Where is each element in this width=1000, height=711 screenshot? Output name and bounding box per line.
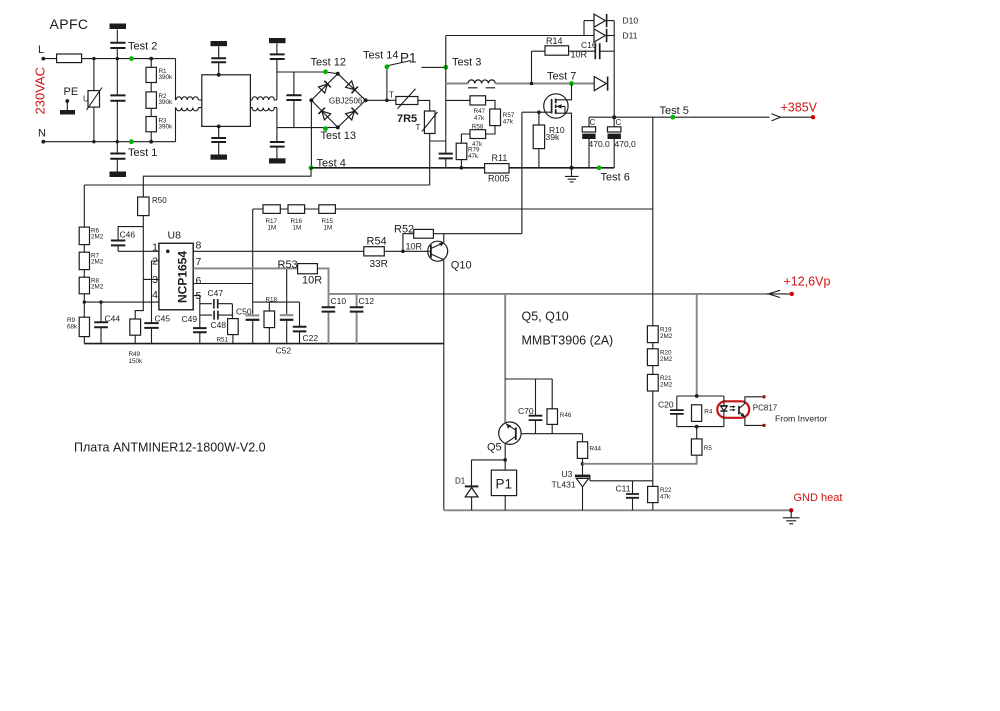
shunt regulator U3 TL431	[581, 462, 585, 466]
svg-text:Test 1: Test 1	[128, 147, 157, 159]
svg-text:N: N	[38, 128, 46, 140]
svg-text:T: T	[389, 91, 394, 100]
resistor R17	[263, 205, 280, 214]
svg-text:Test 2: Test 2	[128, 41, 157, 53]
resistor R10	[537, 110, 541, 114]
svg-text:C47: C47	[208, 288, 224, 298]
resistor R8	[83, 270, 85, 278]
svg-text:1M: 1M	[293, 225, 302, 232]
Y-cap right top	[276, 43, 278, 72]
node Test3 vertical	[445, 36, 447, 168]
resistor R58	[470, 130, 486, 139]
chassis ground bar	[269, 158, 286, 163]
svg-text:4: 4	[152, 289, 158, 301]
wire	[486, 126, 495, 134]
svg-text:R5: R5	[704, 445, 713, 452]
bridge negative riser	[310, 100, 312, 168]
svg-text:2M2: 2M2	[660, 356, 673, 363]
wire	[418, 100, 430, 111]
capacitor C 470.0	[588, 117, 590, 168]
capacitor C49	[193, 296, 200, 344]
wire Test4 to R50	[143, 168, 311, 197]
shunt resistor R11 R005	[485, 164, 509, 173]
resistor R44	[582, 434, 584, 464]
wire pin7 Vcc	[193, 268, 328, 293]
C20/R4 box wires	[677, 396, 724, 427]
svg-text:T: T	[416, 123, 421, 132]
svg-text:230VAC: 230VAC	[33, 67, 48, 114]
resistor R52	[403, 234, 414, 252]
X-cap C2	[293, 72, 295, 128]
svg-text:Test 13: Test 13	[321, 130, 356, 142]
svg-text:R18: R18	[266, 296, 278, 303]
wire AC sense	[84, 184, 429, 186]
svg-text:R4: R4	[704, 408, 713, 415]
test point Test 12	[323, 69, 328, 74]
earth ground	[565, 168, 579, 182]
capacitor C11	[632, 481, 634, 511]
svg-text:D1: D1	[455, 477, 466, 486]
svg-text:Test 3: Test 3	[452, 57, 481, 69]
resistor R19	[647, 326, 658, 343]
svg-text:TL431: TL431	[552, 480, 576, 490]
svg-text:R11: R11	[492, 153, 508, 163]
svg-text:C: C	[616, 118, 622, 127]
svg-text:390k: 390k	[159, 74, 174, 81]
test point Test 5	[670, 115, 675, 120]
svg-text:C46: C46	[120, 230, 136, 240]
Y-cap bottom left	[116, 142, 118, 172]
feedback node vertical	[252, 209, 254, 344]
resistor R7	[83, 245, 85, 253]
svg-text:Q5: Q5	[487, 442, 502, 454]
chassis ground bar	[211, 155, 228, 160]
wire	[198, 100, 201, 108]
svg-text:6: 6	[196, 275, 202, 287]
resistor R14	[532, 50, 596, 52]
svg-text:10R: 10R	[302, 274, 322, 286]
gate wire	[522, 112, 552, 234]
svg-text:C20: C20	[658, 399, 674, 409]
resistor R21	[647, 374, 658, 391]
chassis ground bar	[269, 38, 286, 43]
test point Test 3	[443, 65, 448, 70]
GND heat terminal	[789, 508, 793, 512]
capacitor C16	[595, 43, 599, 59]
svg-text:10R: 10R	[571, 50, 588, 60]
test point Test 4	[309, 165, 314, 170]
svg-text:R50: R50	[152, 196, 167, 205]
resistor R57	[490, 109, 501, 126]
wire top to bridge	[277, 72, 338, 74]
svg-text:U: U	[83, 95, 89, 104]
resistor R49	[130, 319, 141, 335]
svg-text:D11: D11	[623, 31, 638, 41]
MOSFET Q1	[556, 84, 572, 100]
svg-text:47k: 47k	[503, 118, 514, 125]
svg-text:U8: U8	[168, 230, 182, 242]
thermistor T2	[424, 111, 435, 134]
svg-text:2M2: 2M2	[91, 259, 104, 266]
ref wire	[590, 480, 653, 482]
thermistor 7R5	[396, 97, 418, 105]
wire R44 to R5	[583, 455, 697, 464]
capacitor C 470,0	[608, 127, 621, 132]
svg-text:C44: C44	[105, 314, 121, 324]
+385V divider riser	[652, 117, 654, 481]
test point Test 2	[129, 56, 134, 61]
svg-text:C45: C45	[155, 314, 171, 324]
svg-text:C70: C70	[518, 406, 534, 416]
resistor R51	[231, 304, 234, 344]
svg-text:1: 1	[152, 242, 158, 254]
X-cap C3	[439, 154, 453, 159]
capacitor C45	[152, 261, 159, 344]
svg-text:Test 12: Test 12	[311, 57, 346, 69]
bridge rectifier GBJ2506	[311, 74, 365, 128]
resistor R2	[146, 92, 156, 108]
choke L1 bottom winding	[176, 108, 198, 111]
svg-text:P1: P1	[400, 51, 417, 66]
svg-text:+385V: +385V	[781, 101, 818, 115]
svg-text:MMBT3906 (2A): MMBT3906 (2A)	[522, 334, 614, 348]
svg-text:8: 8	[196, 240, 202, 252]
wire bridge+ to thermistor	[366, 99, 396, 101]
junction snubber	[530, 82, 534, 86]
svg-text:39k: 39k	[546, 132, 560, 142]
test point Test 13	[323, 126, 328, 131]
capacitor C47	[200, 303, 233, 305]
test point Test 7	[569, 81, 574, 86]
wire L riser	[175, 59, 178, 100]
resistor R54	[364, 247, 385, 256]
svg-text:R49: R49	[129, 351, 141, 358]
svg-text:47k: 47k	[474, 115, 485, 122]
wire	[486, 100, 495, 109]
capacitor C52	[286, 268, 288, 343]
Y-cap box top	[218, 46, 220, 75]
resistor R20	[647, 349, 658, 366]
wire R52 to gate riser	[433, 233, 522, 235]
svg-text:PE: PE	[64, 86, 79, 98]
wire to R47	[446, 99, 470, 101]
Y-cap top left	[116, 30, 118, 59]
svg-text:+12,6Vp: +12,6Vp	[784, 275, 831, 289]
svg-text:C12: C12	[359, 296, 375, 306]
+385V wire	[589, 116, 813, 118]
wire riser bottom	[276, 108, 278, 128]
diode D11	[594, 29, 605, 42]
optocoupler PC817	[717, 401, 749, 418]
base wire Q5	[521, 433, 582, 435]
svg-text:PC817: PC817	[753, 404, 778, 413]
svg-text:390k: 390k	[159, 124, 174, 131]
Y-cap box bottom	[218, 126, 220, 154]
choke L2 bottom winding	[250, 108, 277, 111]
middle ground rail	[84, 343, 444, 345]
wire R50 to pin3	[135, 216, 159, 319]
wire riser top	[276, 72, 278, 100]
svg-text:R44: R44	[590, 445, 602, 452]
capacitor C48	[200, 314, 233, 316]
svg-text:C52: C52	[276, 346, 292, 356]
relay contact P1	[389, 61, 446, 68]
test point Test 1	[129, 139, 134, 144]
svg-text:R53: R53	[278, 259, 298, 271]
PE ground	[66, 101, 68, 110]
wire	[460, 160, 462, 168]
svg-text:47k: 47k	[660, 493, 671, 500]
emitter branch	[505, 378, 552, 380]
resistor R18	[268, 302, 270, 344]
PE terminal	[65, 99, 69, 103]
wire pin8 to Q10 base	[193, 250, 430, 252]
svg-text:R58: R58	[472, 124, 484, 131]
diode D1	[472, 460, 506, 510]
chassis ground bar	[110, 172, 127, 178]
svg-text:Test 6: Test 6	[601, 172, 630, 184]
svg-text:390k: 390k	[159, 99, 174, 106]
svg-text:C48: C48	[211, 320, 227, 330]
output bus	[613, 21, 615, 168]
svg-text:1M: 1M	[268, 225, 277, 232]
svg-text:2M2: 2M2	[91, 234, 104, 241]
svg-text:GND heat: GND heat	[794, 492, 843, 504]
svg-text:P1: P1	[496, 477, 513, 492]
svg-text:150k: 150k	[129, 358, 144, 365]
IC U8 NCP1654	[159, 243, 193, 309]
supply riser to C20	[696, 294, 698, 396]
svg-text:C49: C49	[182, 314, 198, 324]
svg-text:33R: 33R	[370, 259, 388, 270]
svg-text:R46: R46	[560, 412, 572, 419]
earth ground	[783, 510, 800, 524]
svg-text:Q10: Q10	[451, 260, 472, 272]
wire N	[43, 141, 175, 143]
wire L	[43, 58, 175, 60]
resistor R3	[146, 117, 156, 132]
wire N riser	[175, 108, 178, 142]
fuse F1	[57, 54, 82, 63]
capacitor C70	[535, 379, 537, 434]
svg-text:470,0: 470,0	[615, 139, 637, 149]
resistor R4	[692, 405, 702, 422]
svg-text:C10: C10	[331, 296, 347, 306]
svg-text:3: 3	[152, 274, 158, 286]
transistor Q10	[428, 241, 448, 261]
svg-text:Test 7: Test 7	[547, 71, 576, 83]
resistor R6	[79, 227, 89, 245]
svg-text:U3: U3	[562, 469, 573, 479]
svg-text:2M2: 2M2	[660, 333, 673, 340]
return rail	[311, 167, 614, 169]
capacitor C44	[99, 300, 102, 303]
chassis ground bar	[110, 24, 127, 30]
X-cap C1	[116, 59, 118, 142]
test point Test 14	[386, 67, 388, 101]
resistor R1	[149, 57, 153, 61]
relay coil P1	[491, 470, 516, 496]
wire pin4	[84, 294, 159, 317]
svg-text:R54: R54	[367, 235, 387, 247]
svg-text:APFC: APFC	[50, 16, 89, 32]
choke L2 top winding	[250, 97, 277, 100]
capacitor C10	[328, 294, 330, 344]
svg-text:Test 14: Test 14	[363, 50, 398, 62]
boost inductor L3	[468, 80, 495, 84]
test point Test 6	[597, 165, 602, 170]
wire D10/D11 anodes	[446, 21, 594, 36]
wire bottom to bridge	[277, 126, 338, 128]
svg-text:47k: 47k	[468, 153, 479, 160]
svg-text:2M2: 2M2	[660, 382, 673, 389]
svg-text:C22: C22	[303, 333, 319, 343]
Y-cap right bottom	[276, 128, 278, 159]
wire pin6	[193, 283, 253, 285]
svg-text:R14: R14	[546, 36, 563, 46]
svg-text:1M: 1M	[324, 225, 333, 232]
svg-text:R52: R52	[394, 224, 414, 236]
diode D10	[594, 14, 605, 27]
svg-text:2M2: 2M2	[91, 284, 104, 291]
svg-text:C11: C11	[616, 483, 631, 493]
svg-text:Test 5: Test 5	[660, 105, 689, 117]
resistor R47	[470, 96, 486, 105]
bottom ground rail	[444, 509, 791, 511]
capacitor C12	[356, 294, 358, 344]
svg-text:R51: R51	[217, 337, 229, 344]
divider wire R17 chain	[253, 208, 653, 210]
wire	[461, 134, 470, 143]
wire pin1	[118, 250, 159, 252]
wire pin6 branch	[253, 301, 300, 303]
choke L1 top winding	[176, 97, 198, 100]
divider chain riser	[83, 185, 85, 227]
resistor R50	[138, 197, 149, 216]
capacitor C20	[676, 396, 678, 427]
capacitor C22	[299, 302, 301, 344]
svg-text:D10: D10	[623, 16, 639, 26]
filter box	[202, 75, 251, 127]
resistor R79	[456, 143, 467, 159]
svg-text:7: 7	[196, 256, 202, 268]
resistor R53	[298, 264, 318, 274]
svg-text:10R: 10R	[406, 241, 423, 251]
svg-text:From Invertor: From Invertor	[775, 413, 827, 423]
svg-text:Плата ANTMINER12-1800W-V2.0: Плата ANTMINER12-1800W-V2.0	[74, 441, 266, 455]
+12,6Vp rail	[329, 293, 769, 295]
varistor U	[93, 59, 95, 142]
resistor R22	[652, 481, 654, 511]
resistor R16	[288, 205, 305, 214]
svg-text:C: C	[590, 118, 596, 127]
capacitor C50	[246, 314, 260, 316]
svg-text:R005: R005	[488, 174, 510, 184]
chassis ground bar	[211, 41, 228, 46]
boost inductor wire	[446, 83, 594, 85]
wire thermistor down	[430, 134, 446, 186]
svg-text:470.0: 470.0	[589, 139, 611, 149]
svg-text:GBJ2506: GBJ2506	[329, 96, 363, 105]
capacitor C46	[118, 227, 143, 252]
boost diode	[594, 77, 606, 91]
svg-text:Q5, Q10: Q5, Q10	[522, 310, 569, 324]
resistor R46	[551, 379, 553, 434]
svg-text:NCP1654: NCP1654	[176, 251, 190, 303]
resistor R15	[319, 205, 336, 214]
transistor Q5	[504, 294, 506, 423]
svg-text:C50: C50	[236, 307, 252, 317]
svg-text:68k: 68k	[67, 324, 78, 331]
svg-text:7R5: 7R5	[397, 113, 417, 125]
resistor R9	[79, 317, 89, 336]
resistor R5	[691, 439, 702, 455]
svg-text:L: L	[38, 44, 44, 56]
